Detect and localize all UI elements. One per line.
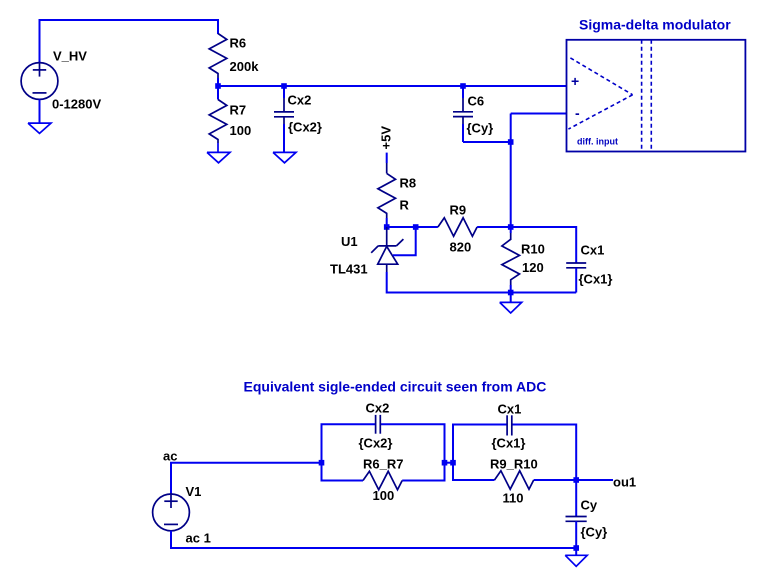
wire: [511, 113, 567, 115]
dashed partition line: [650, 40, 652, 152]
svg-text:{Cx1}: {Cx1}: [579, 272, 613, 287]
junction: [508, 139, 514, 145]
wire: [510, 293, 512, 303]
dashed partition line: [641, 40, 643, 152]
svg-text:R7: R7: [230, 103, 247, 118]
resistor R10: [502, 227, 520, 293]
wire: [39, 99, 41, 123]
svg-text:Cy: Cy: [581, 498, 598, 513]
wire box1: [322, 424, 445, 480]
svg-text:+5V: +5V: [379, 126, 394, 150]
wire: [393, 227, 416, 255]
svg-text:200k: 200k: [230, 59, 260, 74]
voltage source V1: [153, 493, 190, 531]
dashed op-amp triangle: [568, 58, 632, 129]
svg-text:{Cy}: {Cy}: [467, 121, 494, 136]
wire: [575, 548, 577, 555]
svg-text:C6: C6: [468, 94, 485, 109]
wire: [171, 531, 576, 548]
svg-text:ou1: ou1: [613, 475, 636, 490]
svg-text:-: -: [575, 105, 580, 121]
svg-text:Equivalent sigle-ended circuit: Equivalent sigle-ended circuit seen from…: [244, 379, 547, 395]
wire box2: [453, 425, 576, 481]
voltage source V_HV: [21, 62, 58, 100]
svg-text:diff. input: diff. input: [577, 137, 618, 147]
capacitor Cx1 equivalent: [507, 415, 512, 435]
svg-text:0-1280V: 0-1280V: [52, 97, 101, 112]
svg-text:Cx1: Cx1: [581, 243, 605, 258]
junction: [384, 224, 390, 230]
svg-text:110: 110: [503, 491, 524, 506]
svg-text:Cx2: Cx2: [288, 93, 312, 108]
wire: [576, 479, 613, 481]
sigma-delta modulator box: [567, 40, 746, 152]
svg-text:U1: U1: [341, 234, 358, 249]
junction: [508, 290, 514, 296]
capacitor Cx1: [511, 227, 587, 293]
svg-text:R9_R10: R9_R10: [490, 457, 538, 472]
resistor R9: [416, 218, 511, 236]
capacitor Cx2: [274, 86, 294, 152]
svg-text:{Cx1}: {Cx1}: [492, 436, 526, 451]
wire: [171, 463, 322, 494]
svg-text:100: 100: [230, 123, 252, 138]
svg-text:Cx1: Cx1: [498, 402, 522, 417]
svg-text:{Cx2}: {Cx2}: [359, 436, 393, 451]
junction: [442, 460, 448, 466]
svg-text:820: 820: [450, 240, 472, 255]
svg-text:+: +: [571, 73, 579, 89]
svg-text:R6: R6: [230, 36, 247, 51]
shunt regulator U1 TL431: [371, 227, 403, 272]
wire: [40, 20, 219, 63]
junction: [573, 545, 579, 551]
capacitor C6: [453, 86, 473, 142]
wire: [387, 272, 577, 293]
junction: [450, 460, 456, 466]
junction: [281, 83, 287, 89]
ground: [565, 555, 587, 566]
svg-text:120: 120: [522, 260, 544, 275]
svg-text:{Cy}: {Cy}: [581, 525, 608, 540]
svg-text:100: 100: [373, 488, 395, 503]
ground: [500, 302, 522, 313]
junction: [319, 460, 325, 466]
svg-text:R8: R8: [400, 176, 417, 191]
svg-text:TL431: TL431: [330, 262, 368, 277]
resistor R8: [378, 153, 396, 227]
resistor R9_R10: [495, 471, 534, 489]
svg-text:R: R: [400, 198, 410, 213]
resistor R6_R7: [363, 471, 402, 489]
svg-text:{Cx2}: {Cx2}: [288, 120, 322, 135]
wire: [218, 85, 567, 87]
svg-text:R6_R7: R6_R7: [363, 457, 403, 472]
svg-text:Cx2: Cx2: [366, 401, 390, 416]
svg-text:R9: R9: [450, 203, 467, 218]
junction: [460, 83, 466, 89]
junction: [215, 83, 221, 89]
capacitor Cx2 equivalent: [376, 415, 381, 434]
svg-text:R10: R10: [521, 242, 545, 257]
resistor R7: [209, 86, 227, 152]
resistor R6: [209, 34, 227, 87]
ground: [28, 123, 51, 133]
svg-text:ac: ac: [163, 449, 177, 464]
svg-text:Sigma-delta modulator: Sigma-delta modulator: [579, 17, 731, 33]
svg-text:ac 1: ac 1: [186, 531, 211, 546]
wire: [463, 141, 511, 143]
capacitor Cy: [566, 480, 587, 548]
wire: [445, 462, 454, 464]
svg-text:V_HV: V_HV: [53, 49, 87, 64]
ground: [207, 152, 230, 162]
junction: [413, 224, 419, 230]
wire: [510, 114, 512, 228]
wire: [387, 226, 416, 228]
junction: [508, 224, 514, 230]
junction: [573, 477, 579, 483]
ground: [273, 152, 296, 162]
svg-text:V1: V1: [186, 484, 202, 499]
